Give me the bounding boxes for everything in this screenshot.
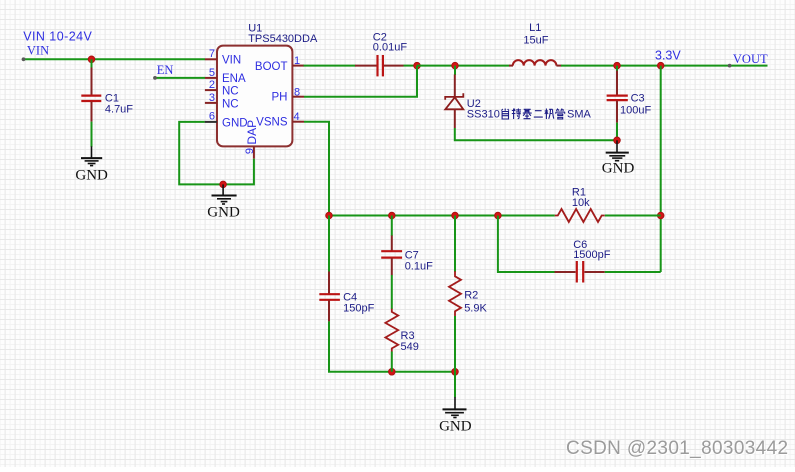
resistor R1 [555, 209, 605, 222]
svg-text:2: 2 [209, 79, 215, 91]
svg-text:1: 1 [294, 55, 300, 67]
pin 8 PH [272, 86, 304, 103]
junction node C6 left [495, 212, 502, 219]
capacitor C2 [355, 55, 404, 76]
svg-text:3.3V: 3.3V [655, 48, 681, 62]
wire L1 to VOUT [561, 65, 768, 67]
junction node 3.3V tap [657, 62, 664, 69]
svg-text:PH: PH [272, 92, 288, 104]
wire C7 top stub [391, 216, 393, 237]
wire diode bottom to GND rail [455, 128, 617, 140]
pin 9 DAP [244, 120, 259, 159]
wire R2 bottom [454, 316, 456, 372]
node VOUT attach point [728, 64, 732, 68]
hanzi 管 [556, 109, 565, 119]
svg-text:10k: 10k [572, 197, 590, 209]
svg-text:TPS5430DDA: TPS5430DDA [248, 33, 318, 45]
junction node rail left [326, 212, 333, 219]
wire R2 top [454, 216, 456, 273]
svg-text:VIN: VIN [27, 44, 49, 58]
node EN wire left endpoint [153, 76, 157, 80]
inductor L1 [509, 60, 562, 65]
wire R1 to 3.3V drop [605, 215, 661, 217]
wire R3 bottom [391, 352, 393, 372]
hanzi 特 [512, 109, 521, 120]
resistor R3 [385, 309, 398, 352]
svg-text:GND: GND [222, 117, 248, 129]
wire C2 to PH node [404, 65, 418, 67]
svg-text:DAP: DAP [245, 120, 259, 145]
svg-text:R2: R2 [464, 290, 478, 302]
wire C4 top [328, 216, 330, 273]
wire GND drop bottom [454, 372, 456, 398]
svg-text:3: 3 [209, 92, 215, 104]
hanzi 极 [545, 109, 554, 120]
wire pin6 DAP loop [179, 122, 254, 184]
junction node R3 bottom [389, 369, 396, 376]
watermark [566, 438, 788, 460]
junction node R2 top [452, 212, 459, 219]
wire C6 right leg [605, 271, 661, 273]
svg-text:5: 5 [209, 67, 215, 79]
wire C7 to R3 [391, 275, 393, 309]
svg-text:SMA: SMA [567, 109, 592, 121]
svg-text:7: 7 [209, 48, 215, 60]
hanzi 二 [534, 111, 543, 117]
wire C1 top stub [91, 59, 93, 68]
ground symbol bottom [443, 397, 467, 418]
pin 6 GND [205, 110, 248, 129]
node VIN wire left endpoint [22, 57, 26, 61]
wire C4 bottom / ground rail [329, 321, 455, 371]
svg-text:NC: NC [222, 85, 239, 97]
svg-text:NC: NC [222, 98, 239, 110]
svg-text:9: 9 [244, 148, 256, 154]
junction node GND rail [614, 137, 621, 144]
wire VSNS to feedback rail [304, 122, 329, 216]
svg-text:VIN 10-24V: VIN 10-24V [23, 30, 92, 44]
wire PH drop to pin 8 [304, 66, 417, 97]
junction node PH [414, 62, 421, 69]
pin 1 BOOT [255, 55, 304, 73]
ground symbol at C1 [81, 146, 102, 165]
pin 5 ENA [205, 67, 246, 85]
svg-text:6: 6 [209, 110, 215, 122]
svg-text:1500pF: 1500pF [573, 249, 611, 261]
capacitor C1 [81, 68, 101, 122]
wire C3 bottom [616, 123, 618, 141]
wire PH node to L1 [417, 65, 510, 67]
hanzi 基 [523, 109, 532, 119]
wire BOOT to C2 [304, 65, 356, 67]
junction node C3 top [614, 62, 621, 69]
wire feedback rail [329, 215, 555, 217]
wire VIN rail [23, 58, 206, 60]
svg-text:5.9K: 5.9K [464, 302, 487, 314]
svg-text:4.7uF: 4.7uF [105, 104, 133, 116]
svg-text:GND: GND [602, 161, 635, 177]
pin 7 VIN [205, 48, 241, 66]
junction node R2 bottom [452, 369, 459, 376]
svg-text:15uF: 15uF [523, 34, 548, 46]
svg-text:VIN: VIN [222, 54, 241, 66]
svg-text:VSNS: VSNS [256, 117, 288, 129]
svg-text:GND: GND [75, 168, 108, 184]
IC U1 TPS5430DDA body [217, 46, 292, 147]
diode U2 SS310 schottky [445, 75, 463, 129]
svg-text:VOUT: VOUT [733, 52, 768, 66]
svg-text:8: 8 [294, 86, 300, 98]
ground symbol at DAP [212, 184, 237, 204]
svg-text:BOOT: BOOT [255, 61, 288, 73]
junction node C7 top [389, 212, 396, 219]
svg-text:0.01uF: 0.01uF [373, 42, 408, 54]
svg-text:GND: GND [439, 418, 472, 434]
capacitor C4 [319, 272, 340, 322]
pin 4 VSNS [256, 111, 304, 128]
resistor R2 [449, 271, 461, 316]
svg-text:GND: GND [207, 204, 240, 220]
capacitor C3 [607, 66, 628, 123]
svg-text:150pF: 150pF [343, 302, 374, 314]
svg-text:0.1uF: 0.1uF [405, 260, 433, 272]
ground symbol at C3 [606, 140, 629, 160]
svg-text:L1: L1 [529, 22, 541, 34]
hanzi 肖 [502, 109, 509, 120]
junction node diode tap [452, 62, 459, 69]
pin 2 NC [205, 79, 239, 97]
junction node at C1 [88, 56, 95, 63]
pin 3 NC [205, 92, 239, 110]
svg-text:C3: C3 [631, 93, 645, 105]
wire C1 to GND [91, 122, 93, 147]
svg-text:549: 549 [401, 341, 419, 353]
svg-text:4: 4 [294, 111, 300, 123]
wire 3.3V drop [660, 66, 662, 272]
junction node DAP GND [220, 181, 227, 188]
svg-text:100uF: 100uF [620, 105, 651, 117]
wire diode top stub [454, 66, 456, 75]
capacitor C7 [381, 236, 402, 276]
svg-text:SS310: SS310 [467, 109, 500, 121]
junction node R1 right [657, 212, 664, 219]
svg-text:ENA: ENA [222, 73, 246, 85]
wire C6 left leg [498, 216, 555, 273]
capacitor C6 [555, 261, 605, 283]
svg-text:EN: EN [157, 63, 174, 77]
wire EN [155, 77, 206, 79]
